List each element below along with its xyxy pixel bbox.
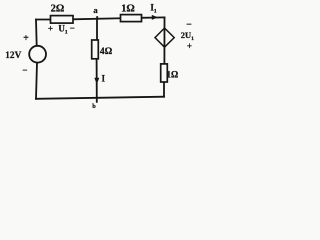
svg-text:1Ω: 1Ω: [166, 69, 178, 79]
node a tick: [96, 16, 98, 19]
svg-text:+: +: [48, 24, 53, 34]
wire top rail left segment: [36, 19, 51, 21]
svg-text:−: −: [22, 65, 27, 75]
svg-text:−: −: [70, 23, 75, 33]
dependent source diamond 2U1: [155, 28, 174, 47]
wire bottom rail: [36, 97, 164, 99]
svg-text:+: +: [23, 33, 29, 44]
svg-text:1Ω: 1Ω: [121, 3, 135, 14]
wire right branch through diamond: [163, 17, 165, 64]
svg-text:12V: 12V: [5, 51, 21, 61]
wire 4ohm branch upper: [96, 19, 98, 40]
wire top rail middle segment: [73, 18, 121, 19]
wire left branch upper: [35, 20, 38, 46]
svg-text:+: +: [187, 41, 192, 51]
svg-text:I: I: [102, 74, 106, 84]
resistor R1 2ohm box: [51, 16, 74, 24]
resistor 1ohm top box: [121, 15, 142, 22]
resistor 4ohm box: [92, 40, 99, 59]
wire top rail right segment: [142, 16, 165, 18]
wire left branch lower: [36, 63, 37, 99]
current arrow I1 head: [152, 15, 158, 20]
svg-text:2Ω: 2Ω: [51, 4, 65, 15]
svg-text:−: −: [186, 20, 192, 31]
svg-text:4Ω: 4Ω: [100, 47, 113, 57]
wire right branch lower: [163, 82, 165, 97]
svg-text:b: b: [92, 103, 96, 110]
resistor 1ohm right box: [161, 64, 168, 82]
voltage source 12V circle: [29, 46, 46, 63]
wire 4ohm branch lower: [96, 59, 98, 102]
current arrow I head: [94, 78, 99, 84]
